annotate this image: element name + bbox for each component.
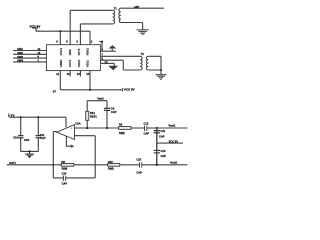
svg-text:ANT: ANT [134, 5, 140, 9]
svg-text:R8: R8 [62, 160, 66, 164]
svg-text:VDD1: VDD1 [85, 47, 89, 55]
svg-text:SW2: SW2 [17, 51, 23, 55]
svg-text:U2A: U2A [75, 121, 80, 125]
svg-text:C14: C14 [62, 172, 67, 176]
svg-text:VSS1: VSS1 [85, 60, 89, 68]
svg-text:Vmid: Vmid [97, 97, 104, 101]
svg-text:VCC1: VCC1 [59, 47, 63, 55]
svg-text:GND1: GND1 [59, 59, 63, 67]
svg-text:SW1: SW1 [17, 47, 23, 51]
svg-text:CAP: CAP [136, 170, 142, 174]
svg-text:Vout1: Vout1 [168, 124, 176, 128]
svg-text:C13: C13 [161, 149, 166, 153]
svg-text:Vout2: Vout2 [170, 160, 178, 164]
svg-text:C11: C11 [161, 129, 166, 133]
svg-text:VCC 5V: VCC 5V [124, 88, 135, 92]
svg-text:CAP: CAP [24, 138, 30, 142]
svg-text:C15: C15 [136, 158, 141, 162]
svg-text:RES1: RES1 [90, 114, 97, 118]
svg-text:SW4: SW4 [17, 59, 23, 63]
svg-text:XIN1: XIN1 [68, 49, 72, 56]
svg-text:R9: R9 [119, 123, 123, 127]
svg-text:R(M): R(M) [108, 167, 114, 171]
svg-text:+: + [71, 126, 73, 130]
svg-text:OSC1: OSC1 [77, 59, 81, 67]
svg-text:SW3: SW3 [17, 55, 23, 59]
svg-text:CAP: CAP [62, 181, 68, 185]
svg-text:OUT1: OUT1 [9, 161, 16, 165]
svg-text:-: - [71, 134, 72, 138]
svg-text:C12: C12 [144, 122, 149, 126]
svg-text:CAP: CAP [159, 134, 165, 138]
svg-text:CAP: CAP [111, 110, 117, 114]
svg-text:CAP: CAP [161, 154, 167, 158]
svg-text:ST: ST [53, 90, 57, 94]
svg-text:R(M): R(M) [119, 131, 125, 135]
svg-text:OUT1: OUT1 [68, 59, 72, 67]
svg-text:R10: R10 [108, 160, 113, 164]
svg-text:CAP: CAP [144, 132, 150, 136]
svg-text:XVT1: XVT1 [77, 48, 81, 55]
svg-text:R(M): R(M) [62, 166, 68, 170]
svg-text:C10: C10 [13, 135, 18, 139]
svg-text:VCC 3V: VCC 3V [169, 139, 179, 143]
svg-text:C9: C9 [111, 107, 115, 111]
svg-text:CAP: CAP [40, 136, 46, 140]
